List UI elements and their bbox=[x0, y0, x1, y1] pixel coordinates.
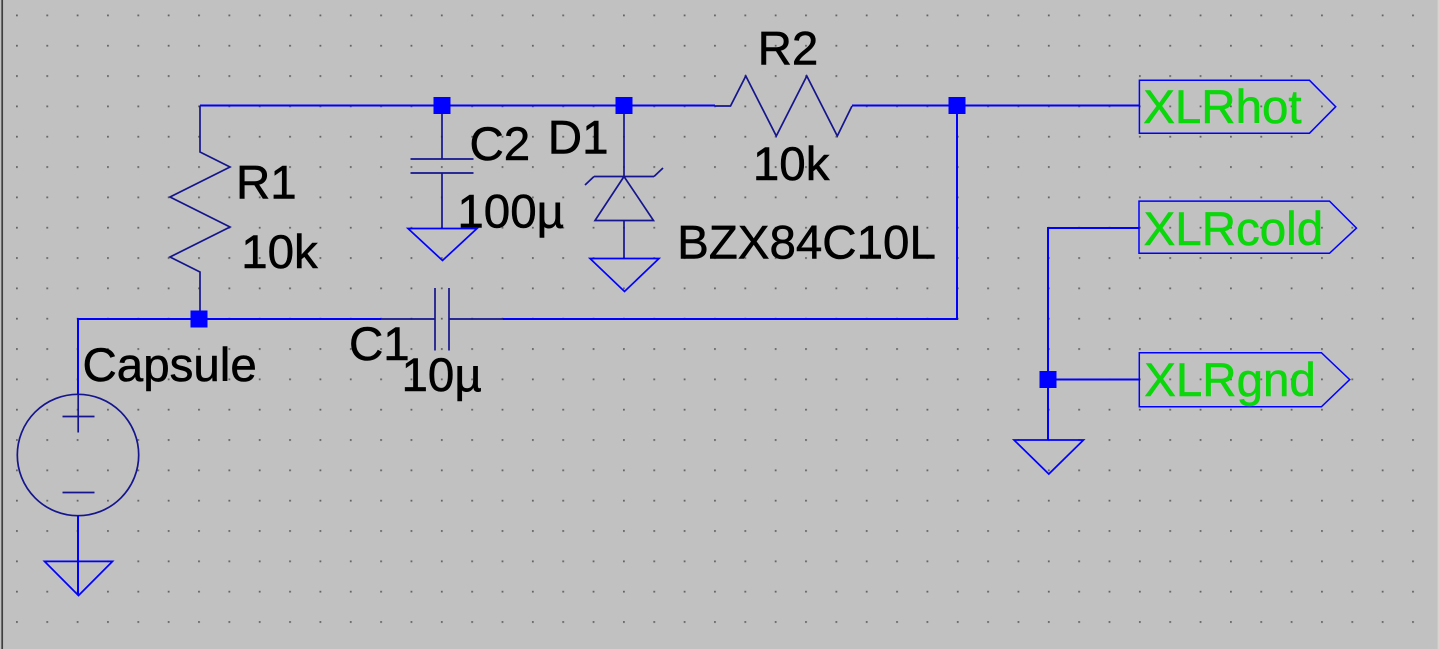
svg-text:XLRhot: XLRhot bbox=[1143, 81, 1301, 134]
svg-text:100µ: 100µ bbox=[457, 186, 564, 239]
svg-text:10k: 10k bbox=[241, 226, 318, 279]
voltage source V1 Capsule bbox=[17, 394, 138, 515]
junction at R2 right / riser bbox=[949, 97, 966, 114]
net flag XLRgnd bbox=[1139, 353, 1349, 407]
svg-text:R1: R1 bbox=[236, 157, 297, 210]
svg-text:C2: C2 bbox=[470, 118, 531, 171]
svg-text:Capsule: Capsule bbox=[83, 339, 257, 392]
wire: mid horizontal left (capsule corner to C1 left) bbox=[78, 319, 381, 394]
svg-text:10µ: 10µ bbox=[402, 349, 482, 402]
svg-text:XLRgnd: XLRgnd bbox=[1144, 354, 1316, 407]
junction at XLRgnd branch bbox=[1040, 371, 1057, 388]
wire: capsule bottom lead bbox=[77, 516, 79, 594]
ground under Capsule bbox=[45, 561, 113, 595]
net flag XLRhot bbox=[1139, 80, 1335, 133]
wire: R2 right end to XLRhot flag bbox=[852, 105, 1139, 107]
svg-text:10k: 10k bbox=[753, 138, 830, 191]
resistor R1 bbox=[170, 106, 230, 320]
junction at R1 bottom / mid wire bbox=[191, 311, 208, 328]
junction at D1 / top wire bbox=[616, 97, 633, 114]
wire: C1 right to vertical riser from J3 bbox=[503, 106, 957, 320]
capacitor C1 bbox=[381, 288, 503, 351]
wire: XLRcold branch horizontal bbox=[1048, 228, 1139, 440]
svg-text:XLRcold: XLRcold bbox=[1144, 203, 1324, 256]
junction at C2 / top wire bbox=[434, 97, 451, 114]
ground under XLRgnd junction bbox=[1014, 440, 1084, 474]
svg-text:D1: D1 bbox=[548, 112, 609, 165]
wire: XLRgnd junction to flag bbox=[1048, 379, 1139, 381]
net flag XLRcold bbox=[1139, 201, 1357, 253]
ground under C2 bbox=[408, 229, 477, 261]
wire top: R1 top to R2 left lead bbox=[200, 105, 715, 107]
capacitor C2 bbox=[411, 106, 474, 229]
zener diode D1 bbox=[585, 106, 663, 259]
svg-text:R2: R2 bbox=[758, 23, 819, 76]
resistor R2 bbox=[715, 76, 852, 136]
ground under D1 bbox=[590, 259, 659, 292]
svg-text:BZX84C10L: BZX84C10L bbox=[677, 217, 936, 270]
